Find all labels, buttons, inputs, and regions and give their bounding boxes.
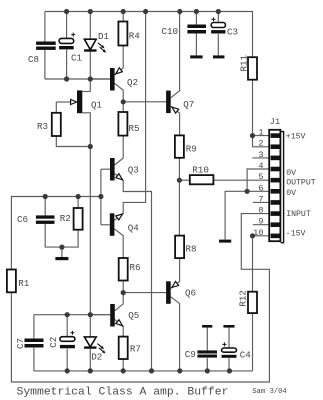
transistor Q6 xyxy=(166,281,171,304)
wire R4 top stem xyxy=(122,12,124,22)
capacitor C6 xyxy=(36,215,55,218)
junction rail/Q6 xyxy=(177,368,182,373)
wire C8 bottom stem xyxy=(44,50,46,79)
junction node B (Q1 source/R3) xyxy=(88,144,93,149)
svg-text:R1: R1 xyxy=(18,278,30,289)
junction input/R2 xyxy=(76,194,81,199)
svg-text:D2: D2 xyxy=(91,352,102,363)
wire J1 pin 6 to ground xyxy=(225,191,270,239)
resistor R2 xyxy=(74,208,83,230)
svg-text:C9: C9 xyxy=(185,349,196,360)
svg-text:-15V: -15V xyxy=(286,229,306,238)
capacitor C8 xyxy=(36,42,56,45)
wire C4 ground stem xyxy=(228,328,230,348)
svg-text:C4: C4 xyxy=(240,350,252,361)
wire Q3 emitter to x151 column xyxy=(115,174,152,371)
junction input/C6 xyxy=(43,194,48,199)
wire Q4 collector to R6 top xyxy=(114,229,123,258)
wire R4 bottom to Q2 emitter xyxy=(115,46,124,75)
junction +15V/D1 xyxy=(88,9,93,14)
capacitor C2 xyxy=(60,337,75,342)
resistor R11 xyxy=(248,57,257,79)
svg-text:R7: R7 xyxy=(130,344,141,355)
svg-text:4: 4 xyxy=(258,161,263,171)
wire node E to R10 xyxy=(179,179,189,181)
svg-text:Q5: Q5 xyxy=(128,310,139,321)
resistor R5 xyxy=(118,112,127,136)
LED D1 xyxy=(84,39,96,50)
wire J1 pin 3 stub xyxy=(252,157,270,159)
ground below C10 xyxy=(190,55,202,58)
junction +15V/R4 xyxy=(121,9,126,14)
junction D2 top/Q5 base xyxy=(88,312,93,317)
wire C9 bottom stem xyxy=(206,358,208,371)
wire +15V top rail xyxy=(45,12,253,58)
junction rail/C2 xyxy=(65,368,70,373)
transistor Q3 xyxy=(110,158,115,181)
capacitor C9 xyxy=(197,350,217,353)
wire Q2 base lead xyxy=(90,78,110,80)
svg-text:8: 8 xyxy=(258,206,263,216)
wire Q5 base lead xyxy=(90,314,110,316)
junction J1 pin 1 xyxy=(250,133,255,138)
wire C2 bottom stem xyxy=(66,349,68,371)
wire Q1 gate to R3 top xyxy=(55,102,57,113)
wire node A row (C8/C1/D1 to Q2 base) xyxy=(45,78,110,80)
junction ground node R2/C6 xyxy=(59,245,64,250)
resistor R12 xyxy=(248,292,257,313)
wire ground stem R2/C6 xyxy=(61,247,63,257)
junction J1 pin 6 0V xyxy=(245,189,250,194)
wire J1 pin 4 to pin 6 (0V) xyxy=(247,169,270,191)
svg-text:R8: R8 xyxy=(186,244,197,255)
capacitor C7 xyxy=(25,339,44,343)
svg-text:9: 9 xyxy=(258,217,263,227)
resistor R10 xyxy=(190,175,214,184)
LED D2 xyxy=(84,337,96,347)
wire R7 bottom stem xyxy=(122,359,124,371)
wire J1 pin 10 to R12 xyxy=(253,236,271,292)
svg-text:3: 3 xyxy=(258,150,263,160)
junction +15V/C3 xyxy=(216,9,221,14)
ground near J1 pin 6 xyxy=(219,240,231,243)
svg-text:R4: R4 xyxy=(129,30,141,41)
wire C2 top stem xyxy=(66,315,68,337)
wire R2 bottom to ground node xyxy=(62,230,78,247)
svg-text:R11: R11 xyxy=(239,54,250,71)
wire bias column Q3/Q4 bases xyxy=(100,169,102,225)
connector J1 body xyxy=(269,130,280,241)
wire C10 ground stem xyxy=(195,34,197,56)
wire Q7 collector to +15V xyxy=(171,12,180,98)
svg-text:R6: R6 xyxy=(130,262,141,273)
svg-text:7: 7 xyxy=(258,194,263,204)
wire node E to R8 top xyxy=(178,180,180,235)
svg-text:Q7: Q7 xyxy=(183,99,194,110)
junction C2 top xyxy=(65,312,70,317)
svg-text:R9: R9 xyxy=(186,143,197,154)
wire Q7 base from node C xyxy=(123,101,166,103)
transistor Q5 xyxy=(110,304,115,327)
wire C4 bottom stem xyxy=(228,358,230,371)
inverted ground above C4 xyxy=(223,325,234,328)
svg-text:C10: C10 xyxy=(162,26,179,37)
wire Q1 gate lead xyxy=(56,101,71,103)
wire Q6 collector to -15V rail xyxy=(171,297,180,371)
wire Q1 source lead xyxy=(82,113,90,147)
wire Q6 base from node D xyxy=(123,292,166,294)
svg-text:R3: R3 xyxy=(37,121,48,132)
junction Q2 base node xyxy=(88,76,93,81)
svg-text:C1: C1 xyxy=(71,53,83,64)
wire R1 top to input node xyxy=(11,197,101,270)
junction rail/D2 xyxy=(88,368,93,373)
wire pin 1 to pin 2 xyxy=(253,136,271,147)
junction rail/C4 xyxy=(227,368,232,373)
svg-text:Sam 3/04: Sam 3/04 xyxy=(252,388,287,396)
wire Q5 emitter to R7 top xyxy=(115,320,123,337)
wire C1 top stem xyxy=(66,12,68,39)
wire Q4 base lead xyxy=(101,224,110,226)
capacitor C1 xyxy=(59,38,74,43)
svg-text:R12: R12 xyxy=(237,290,248,307)
wire C10 top stem xyxy=(195,12,197,25)
wire R9 bottom to node E xyxy=(178,158,180,180)
svg-text:Symmetrical Class A amp. Buffe: Symmetrical Class A amp. Buffer xyxy=(17,387,229,399)
svg-text:J1: J1 xyxy=(270,117,280,127)
svg-text:Q2: Q2 xyxy=(127,77,138,88)
wire R2 top stem xyxy=(77,197,79,209)
wire node D to Q5 collector xyxy=(115,293,123,311)
wire J1 pin 7 stub xyxy=(253,201,270,203)
wire C3 top stem xyxy=(217,12,219,23)
wire -15V bottom rail xyxy=(34,370,253,372)
svg-text:R5: R5 xyxy=(129,123,140,134)
svg-text:C6: C6 xyxy=(17,214,28,225)
svg-text:C8: C8 xyxy=(28,54,39,65)
wire D2 top stem xyxy=(89,315,91,337)
svg-text:2: 2 xyxy=(258,139,263,149)
wire J1 pin 8 INPUT loop xyxy=(11,214,270,382)
svg-text:Q3: Q3 xyxy=(128,164,139,175)
transistor Q1 xyxy=(77,90,82,113)
junction J1 pin 10 -15V xyxy=(250,233,255,238)
wire D2 bottom stem xyxy=(89,349,91,371)
wire Q7 emitter to R9 top xyxy=(171,106,180,135)
junction node E (R9/R10/R8) xyxy=(177,178,182,183)
wire R6 bottom to node D xyxy=(122,281,124,293)
transistor Q4 xyxy=(110,213,115,236)
svg-text:R10: R10 xyxy=(192,165,209,176)
svg-text:OUTPUT: OUTPUT xyxy=(286,179,316,188)
svg-text:Q6: Q6 xyxy=(185,288,196,299)
junction node C (Q7 base tap) xyxy=(121,99,126,104)
svg-text:1: 1 xyxy=(258,128,263,138)
capacitor C4 xyxy=(222,348,237,352)
resistor R6 xyxy=(119,258,128,281)
resistor R7 xyxy=(119,337,128,359)
wire D1 bottom to Q1 drain xyxy=(89,51,91,91)
svg-text:Q4: Q4 xyxy=(128,222,140,233)
capacitor C3 xyxy=(211,23,225,28)
wire C1 bottom stem xyxy=(66,50,68,79)
junction C1 bottom xyxy=(64,76,69,81)
wire R12 bottom to -15V rail xyxy=(252,313,254,371)
resistor R4 xyxy=(118,22,127,46)
svg-text:0V: 0V xyxy=(286,169,296,178)
svg-text:C2: C2 xyxy=(48,337,59,348)
wire R11 bottom to J1 pin 1 xyxy=(253,80,271,136)
transistor Q7 xyxy=(166,91,171,114)
resistor R1 xyxy=(7,270,16,293)
wire Q2 collector to node C xyxy=(115,83,124,112)
svg-text:0V: 0V xyxy=(286,189,296,198)
inverted ground above C9 xyxy=(202,325,212,328)
ground below R2/C6 xyxy=(55,257,68,260)
svg-text:6: 6 xyxy=(258,183,263,193)
svg-text:R2: R2 xyxy=(60,213,71,224)
junction +15V/Q4 feed xyxy=(143,9,148,14)
resistor R8 xyxy=(175,236,184,259)
wire R3 bottom to node B xyxy=(56,136,90,147)
wire C6 top stem xyxy=(44,197,46,216)
wire J1 pin 9 stub xyxy=(253,224,270,226)
svg-text:D1: D1 xyxy=(98,31,110,42)
junction +15V/C10 xyxy=(194,9,199,14)
transistor Q2 xyxy=(110,68,115,91)
wire R10 to J1 pin 5 xyxy=(213,179,270,181)
wire C9 ground stem xyxy=(206,328,208,351)
junction +15V/Q7 xyxy=(177,9,182,14)
svg-text:+15V: +15V xyxy=(286,133,306,142)
wire C7 bottom stem xyxy=(33,348,35,371)
resistor R3 xyxy=(52,113,61,136)
wire R8 bottom to Q6 emitter xyxy=(171,258,180,288)
junction +15V/C1 xyxy=(64,9,69,14)
junction rail/x151 xyxy=(149,368,154,373)
wire C7 row to Q5 base xyxy=(34,314,110,316)
junction input/bias column xyxy=(98,194,103,199)
wire +15V to Q4 emitter (x145 column) xyxy=(114,12,145,221)
wire x90 column node B to D2 node xyxy=(89,147,91,315)
junction rail/R7 xyxy=(121,368,126,373)
svg-text:5: 5 xyxy=(258,172,263,182)
svg-text:C3: C3 xyxy=(227,27,238,38)
svg-text:C7: C7 xyxy=(15,338,26,349)
svg-text:INPUT: INPUT xyxy=(286,210,311,219)
wire Q3 base lead xyxy=(101,168,110,170)
wire C7 top stem xyxy=(33,315,35,339)
wire C3 ground stem xyxy=(217,34,219,56)
svg-text:Q1: Q1 xyxy=(91,100,103,111)
junction node D (R6/Q5/Q6) xyxy=(121,290,126,295)
wire C8 top stem xyxy=(44,12,46,42)
capacitor C10 xyxy=(187,25,206,29)
wire R5 bottom to Q3 collector xyxy=(115,136,124,165)
wire D1 top stem xyxy=(89,12,91,40)
resistor R9 xyxy=(175,135,184,157)
wire C6 bottom to ground node xyxy=(45,224,62,247)
ground below C3 xyxy=(213,55,225,58)
wire Q1 drain lead xyxy=(82,91,90,93)
junction rail/C9 xyxy=(205,368,210,373)
